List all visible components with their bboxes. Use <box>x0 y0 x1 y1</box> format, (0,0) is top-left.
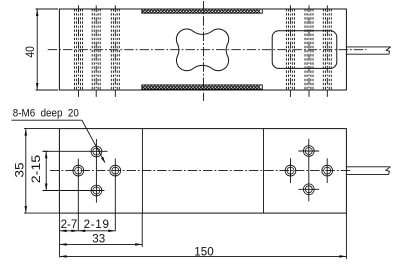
dimension 35 <box>13 129 59 214</box>
tapped hole group (hidden) at x=309.0 <box>305 5 313 97</box>
top view body outline <box>59 9 346 90</box>
bottom view body outline <box>59 129 346 214</box>
cable (bottom view) <box>346 167 390 175</box>
top flexure gap band (cross-hatched) <box>142 9 262 13</box>
svg-text:150: 150 <box>194 246 213 259</box>
dimension 2-15 <box>30 151 48 190</box>
cable (top view) <box>346 47 390 54</box>
tapped hole group (hidden) at x=115.3 <box>111 5 119 97</box>
bottom view horizontal centerline <box>50 170 352 172</box>
bottom flexure gap band (cross-hatched) <box>142 85 262 89</box>
dimension 150 <box>60 246 347 259</box>
left hole pattern: bottom hole <box>43 139 105 203</box>
svg-text:8-M6 deep 20: 8-M6 deep 20 <box>13 108 79 120</box>
dimension 2-19 <box>78 218 115 232</box>
dimension 2-7 <box>60 218 79 232</box>
tapped hole group (hidden) at x=290.4 <box>286 5 294 97</box>
dimension 33 <box>60 232 143 245</box>
leader label 8-M6 deep 20 <box>11 108 105 164</box>
left hole pattern: left hole <box>73 159 84 232</box>
dimension 40 <box>24 9 58 90</box>
tapped hole group (hidden) at x=327.3 <box>323 5 331 97</box>
sealing cover plate (rounded rect) <box>272 31 337 69</box>
svg-text:2-15: 2-15 <box>30 155 43 184</box>
svg-text:2-7: 2-7 <box>61 218 78 231</box>
svg-text:35: 35 <box>13 162 26 177</box>
tapped hole group (hidden) at x=96.2 <box>92 5 100 97</box>
bottom view internal edge line left <box>141 129 143 214</box>
central dogbone cutout <box>176 29 228 71</box>
right hole pattern: bottom hole <box>299 139 320 202</box>
tapped hole group (hidden) at x=78.5 <box>75 5 83 97</box>
svg-text:2-19: 2-19 <box>84 218 110 231</box>
right hole pattern: top hole <box>299 146 320 157</box>
bottom view internal edge line right <box>263 129 265 214</box>
svg-text:40: 40 <box>24 46 37 57</box>
right hole pattern: right hole <box>322 158 333 183</box>
left hole pattern: top hole <box>43 146 108 157</box>
svg-text:33: 33 <box>92 232 105 245</box>
top view vertical centerline <box>203 1 205 101</box>
right hole pattern: left hole <box>285 158 296 183</box>
top view horizontal centerline <box>48 49 367 51</box>
extension lines below bottom view <box>60 213 347 259</box>
left hole pattern: right hole <box>110 159 121 232</box>
